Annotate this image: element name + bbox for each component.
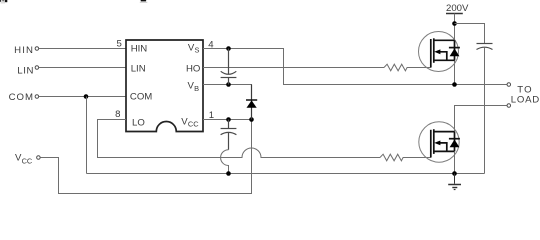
- wire bus cap down to COM rail: [484, 47, 486, 173]
- node COM split: [84, 94, 89, 99]
- svg-text:CC: CC: [188, 120, 199, 129]
- node VB bootstrap bottom: [226, 82, 231, 87]
- wire VCC pin1: [203, 119, 252, 121]
- svg-text:8: 8: [115, 109, 120, 120]
- wire LO with hop over Vcc riser: [98, 120, 381, 158]
- node COM decoupling bottom: [226, 171, 231, 176]
- svg-text:LOAD: LOAD: [511, 95, 540, 106]
- svg-text:HO: HO: [186, 63, 200, 74]
- svg-text:5: 5: [116, 39, 121, 50]
- wire COM rail: [87, 173, 485, 175]
- svg-text:LO: LO: [132, 117, 145, 128]
- svg-text:HIN: HIN: [131, 44, 148, 55]
- svg-text:CC: CC: [22, 157, 33, 166]
- svg-text:S: S: [195, 46, 200, 55]
- wire 200V rail down: [454, 14, 456, 85]
- capacitor C-vcc decoupling: [221, 120, 237, 150]
- terminal LIN: [35, 66, 39, 70]
- transistor Q2 low-side MOSFET: [419, 122, 460, 162]
- svg-text:LIN: LIN: [131, 63, 146, 74]
- svg-text:LIN: LIN: [17, 65, 34, 76]
- node VS bootstrap top: [226, 46, 231, 51]
- cropped text fragment top-left: [0, 0, 7, 3]
- capacitor C-bus: [477, 44, 493, 50]
- node switch output: [452, 82, 457, 87]
- wire VB: [203, 85, 252, 120]
- terminal TO LOAD lower: [507, 104, 511, 108]
- wire HIN to pin 5: [39, 48, 126, 50]
- node 200V branch: [452, 21, 457, 26]
- cropped text fragment top-middle: [140, 0, 148, 3]
- node source-ground: [452, 171, 457, 176]
- wire hop decoupling over LO rail: [221, 150, 229, 174]
- svg-text:200V: 200V: [446, 3, 469, 14]
- wire VS pin4 to output node: [203, 49, 507, 85]
- transistor Q1 high-side MOSFET: [419, 32, 460, 72]
- svg-text:HIN: HIN: [14, 45, 34, 56]
- IC U1 box with notch: [126, 40, 203, 132]
- wire LIN to IC: [39, 67, 126, 69]
- svg-text:B: B: [194, 84, 199, 93]
- terminal TO LOAD upper: [507, 83, 511, 87]
- wire COM to IC: [39, 96, 126, 98]
- capacitor C-boot bootstrap: [221, 49, 237, 85]
- node VCC diode anode: [249, 117, 254, 122]
- terminal HIN: [35, 47, 39, 51]
- diode D-boot: [251, 85, 253, 120]
- wire COM down: [86, 97, 88, 174]
- wire branch to bus cap: [455, 24, 485, 44]
- svg-text:4: 4: [208, 40, 214, 51]
- node VCC decoupling: [226, 117, 231, 122]
- svg-text:COM: COM: [130, 92, 152, 103]
- wire lower drain to load terminal: [455, 106, 507, 132]
- wire low-side source down: [454, 151, 456, 173]
- resistor R-low: [380, 154, 431, 161]
- wire HO to gate resistor: [203, 67, 384, 69]
- ground: [448, 174, 461, 190]
- terminal COM: [35, 95, 39, 99]
- wire Vcc left rail: [40, 120, 251, 194]
- terminal Vcc: [37, 156, 41, 160]
- resistor R-high: [384, 64, 431, 71]
- svg-text:COM: COM: [9, 92, 34, 103]
- supply 200V bar: [446, 13, 463, 15]
